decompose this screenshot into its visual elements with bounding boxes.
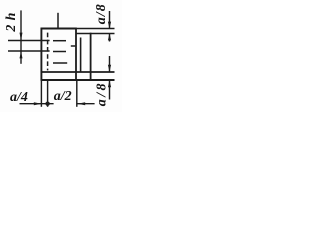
wire bottom edge of plate: [41, 79, 115, 81]
arrowhead a4 right: [34, 102, 42, 105]
arrowhead a8 bottom up: [108, 80, 111, 87]
wire dimension tail 2h below: [20, 52, 22, 64]
wire hidden dash lower: [53, 62, 67, 64]
wire dimension shaft a8 top lower: [109, 34, 111, 42]
svg-text:2h: 2h: [4, 8, 19, 32]
wire right edge of plate: [90, 33, 92, 81]
wire dimension tail right: [77, 103, 94, 105]
wire hidden dash middle: [53, 51, 66, 53]
wire dimension line a4 a2: [20, 103, 54, 105]
arrowhead a8 top down: [108, 22, 111, 29]
arrowhead a8 bottom down: [108, 65, 111, 72]
svg-text:a/2: a/2: [54, 89, 72, 104]
wire left fold line lower: [8, 50, 50, 52]
wire extension line left: [40, 81, 42, 107]
wire lower fold line: [41, 71, 115, 73]
arrowhead 2h down: [20, 33, 23, 41]
wire dimension shaft 2h: [20, 10, 22, 51]
wire hidden nub dash: [71, 45, 76, 47]
wire left edge of plate: [40, 28, 42, 81]
wire dimension shaft a8 top upper: [109, 11, 111, 28]
wire left fold line upper: [8, 40, 50, 42]
arrowhead a2 left: [77, 102, 85, 105]
wire top edge extension: [77, 28, 115, 30]
arrowhead 2h up: [20, 51, 23, 58]
wire inner vertical fold: [80, 38, 82, 73]
wire extension line middle: [76, 81, 78, 107]
arrowhead a8 top up: [108, 33, 111, 40]
wire upper right edge: [76, 33, 115, 35]
wire hidden vertical dashed: [47, 33, 49, 71]
wire hidden dash upper: [53, 40, 66, 42]
svg-text:a/4: a/4: [10, 90, 28, 105]
wire extension line dashed continuation: [47, 81, 49, 107]
wire top edge of plate: [41, 28, 77, 30]
wire dimension shaft a8 bottom lower: [109, 80, 111, 99]
wire step vertical edge: [75, 28, 77, 81]
wire top cut mark: [57, 13, 59, 29]
wire dimension shaft a8 bottom upper: [109, 56, 111, 72]
background: [0, 0, 122, 112]
junction dot: [45, 102, 49, 106]
svg-text:a/8: a/8: [94, 3, 109, 24]
svg-text:a/8: a/8: [94, 81, 109, 106]
